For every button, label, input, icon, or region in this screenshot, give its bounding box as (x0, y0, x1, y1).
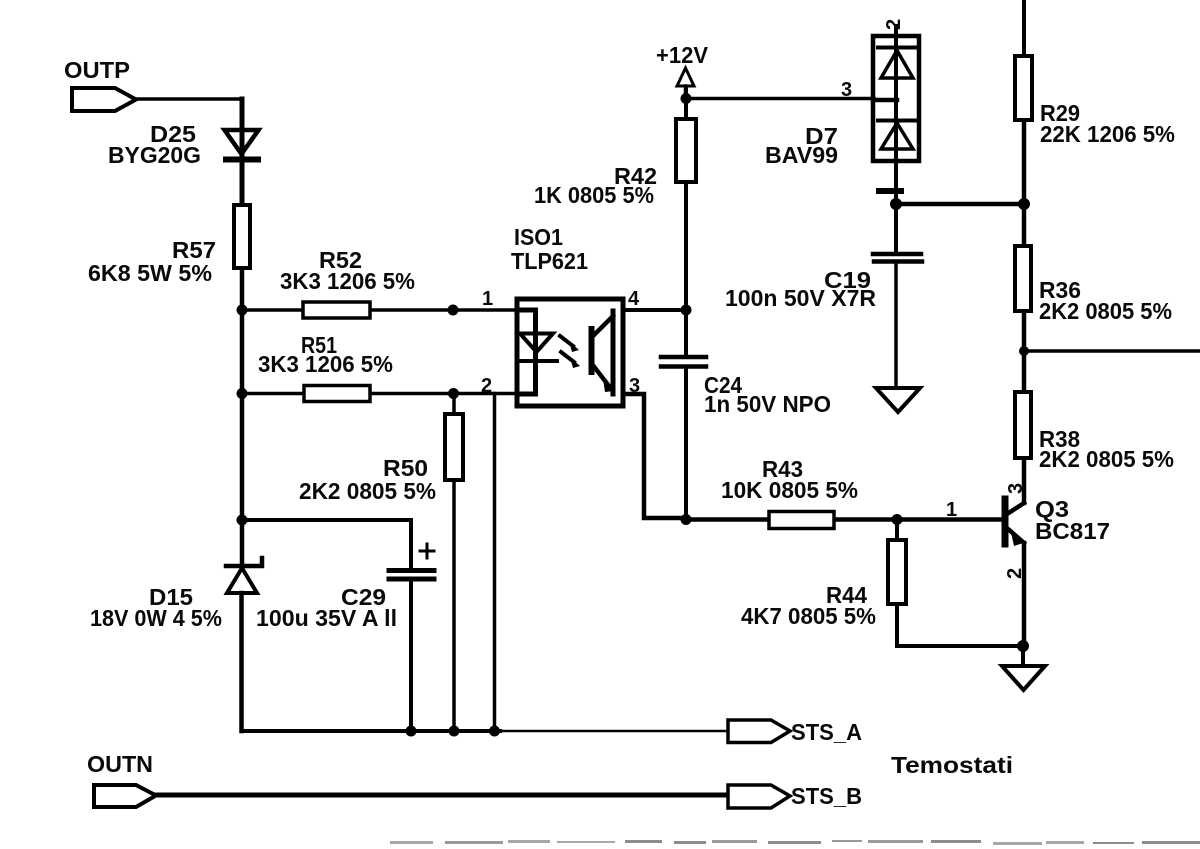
junction node D7 bottom (890, 198, 902, 210)
wire Q3 ground stub (1021, 646, 1025, 664)
svg-text:+12V: +12V (656, 42, 709, 68)
svg-text:22K 1206 5%: 22K 1206 5% (1040, 121, 1175, 147)
wire C29 bottom lead (409, 579, 413, 731)
wire bottom bus to STS_A (242, 729, 501, 733)
wire R43 row to Q3 base (686, 517, 1003, 522)
dual diode D7 internals: top diode (878, 46, 915, 50)
resistor R50 body (445, 414, 463, 480)
wire D7 center lead with stub (894, 26, 898, 187)
svg-text:18V 0W 4 5%: 18V 0W 4 5% (90, 605, 222, 631)
capacitor C19 plates (873, 254, 922, 262)
svg-text:3: 3 (629, 375, 640, 397)
svg-text:2: 2 (883, 19, 905, 30)
diode D25 (225, 130, 259, 160)
connector tag STS_B (728, 785, 790, 808)
dual diode D7 body box (873, 36, 919, 161)
ISO1 light arrow 2 (561, 352, 574, 362)
ground below Q3 (1002, 666, 1045, 690)
connector tag OUTN (94, 785, 156, 807)
D7 pin3 inner bar (873, 98, 897, 103)
wire +12V rail to D7 pin3 (686, 97, 874, 101)
wire C24 bottom to R43 row (684, 367, 688, 520)
junction node emitter / ground (1017, 640, 1029, 652)
ISO1 emitter stroke with arrow (592, 364, 612, 390)
wire left spine down from corner through D25 to R57 (240, 99, 245, 205)
wire R57 bottom to D15 top (through junctions) (240, 268, 245, 566)
svg-text:3: 3 (1005, 483, 1027, 494)
D7 pin1 dash (879, 188, 901, 194)
svg-text:100n 50V X7R: 100n 50V X7R (725, 285, 876, 311)
svg-text:2K2 0805 5%: 2K2 0805 5% (1039, 298, 1172, 324)
resistor R51 body (304, 386, 370, 402)
connector tag STS_A (728, 720, 790, 743)
junction node R51 left (237, 388, 248, 399)
junction node R51 right / R50 top (448, 388, 459, 399)
wire ISO1 pin3 down to R43 row (623, 394, 686, 518)
svg-text:BAV99: BAV99 (765, 142, 838, 168)
svg-text:ISO1: ISO1 (514, 224, 563, 250)
ISO1 LED triangle (520, 334, 553, 353)
capacitor C24 plates (661, 357, 706, 367)
wire top right vertical into R29 (1022, 0, 1026, 56)
ISO1 phototransistor base bar (589, 329, 595, 372)
resistor R42 body (676, 119, 696, 182)
wire R36 to R38 (1022, 311, 1027, 392)
transistor Q3 (1005, 499, 1026, 546)
wire mid node to right edge (1024, 349, 1200, 353)
junction node R43 right / R44 top (892, 514, 903, 525)
resistor R44 body (888, 540, 906, 604)
wire R29 to R36 (1022, 120, 1027, 246)
svg-text:STS_A: STS_A (791, 719, 862, 745)
wire D15 bottom to bus corner (239, 593, 244, 731)
connector tag OUTP (72, 88, 136, 111)
junction node ISO1 pin4 / R42 (681, 305, 692, 316)
wire D7 bottom node to C19 (894, 196, 898, 252)
junction node +12V (681, 93, 692, 104)
svg-text:BYG20G: BYG20G (108, 142, 201, 168)
scan smudge band bottom (390, 840, 1200, 845)
svg-text:6K8 5W 5%: 6K8 5W 5% (88, 260, 212, 286)
optocoupler ISO1 internals: LED feed line (517, 310, 536, 394)
junction node bus R50 (449, 726, 460, 737)
svg-text:1n 50V NPO: 1n 50V NPO (704, 391, 831, 417)
svg-text:2K2 0805 5%: 2K2 0805 5% (1039, 446, 1174, 472)
ISO1 LED cathode bar (519, 359, 557, 363)
resistor R29 body (1015, 56, 1032, 120)
wire R44 leads (897, 520, 1023, 647)
ISO1 right inner vertical (611, 311, 616, 394)
svg-text:OUTP: OUTP (64, 57, 130, 83)
capacitor C29 plus sign (420, 544, 434, 558)
junction node R36 bottom (1019, 346, 1029, 356)
svg-text:Temostati: Temostati (891, 752, 1013, 778)
wire R38 to Q3 collector (1022, 458, 1027, 503)
svg-text:100u 35V A ll: 100u 35V A ll (256, 605, 397, 631)
svg-text:10K 0805 5%: 10K 0805 5% (721, 477, 858, 503)
zener diode D15 (226, 558, 262, 593)
wire junction row to C29 (242, 520, 411, 570)
svg-text:BC817: BC817 (1035, 518, 1110, 544)
wire ISO1 pin2 drop to bus (493, 394, 497, 732)
wire Q3 emitter down to ground node (1022, 543, 1027, 646)
resistor R43 body (769, 512, 834, 529)
optocoupler ISO1 body box (517, 299, 623, 406)
svg-text:STS_B: STS_B (791, 783, 862, 809)
svg-text:2: 2 (1004, 568, 1026, 579)
resistor R57 body (234, 205, 250, 268)
wire C19 to ground (894, 263, 898, 388)
resistor R36 body (1015, 246, 1031, 311)
svg-text:3K3 1206 5%: 3K3 1206 5% (258, 351, 393, 377)
wire OUTN to STS_B (156, 793, 728, 798)
wire OUTP tag to corner (136, 97, 242, 101)
junction node R52 right (448, 305, 459, 316)
ground below C19 (876, 388, 920, 412)
svg-text:3K3 1206 5%: 3K3 1206 5% (280, 268, 415, 294)
svg-text:2: 2 (481, 375, 492, 397)
wire ISO1 pin4 to node (623, 308, 687, 312)
svg-text:4: 4 (628, 288, 640, 310)
wire R51 row (242, 392, 517, 396)
svg-text:TLP621: TLP621 (511, 248, 588, 274)
junction node C24 bottom / R43 left (681, 514, 692, 525)
power arrow +12V (677, 68, 694, 86)
junction node C29 row (237, 515, 248, 526)
wire R50 leads (452, 394, 456, 732)
svg-text:2K2 0805 5%: 2K2 0805 5% (299, 478, 436, 504)
junction node R52 left (237, 305, 248, 316)
svg-text:1: 1 (946, 499, 957, 521)
ISO1 collector stroke (592, 316, 613, 337)
svg-text:4K7 0805 5%: 4K7 0805 5% (741, 603, 876, 629)
svg-text:1: 1 (482, 288, 493, 310)
svg-text:OUTN: OUTN (87, 751, 153, 777)
junction node R29 bottom (1018, 198, 1030, 210)
wire node to R29 branch (896, 202, 1024, 207)
junction node bus pin2 (489, 726, 500, 737)
junction node bus C29 (406, 726, 417, 737)
svg-text:1K 0805 5%: 1K 0805 5% (534, 182, 654, 208)
capacitor C29 plates (389, 571, 434, 580)
ISO1 light arrow 1 (560, 336, 573, 346)
resistor R52 body (303, 302, 370, 318)
wire R52 row (242, 308, 517, 312)
D7 bottom diode (878, 119, 915, 123)
wire R42 vertical chain down to C24 (684, 86, 688, 357)
resistor R38 body (1015, 392, 1031, 458)
svg-text:3: 3 (841, 79, 852, 101)
